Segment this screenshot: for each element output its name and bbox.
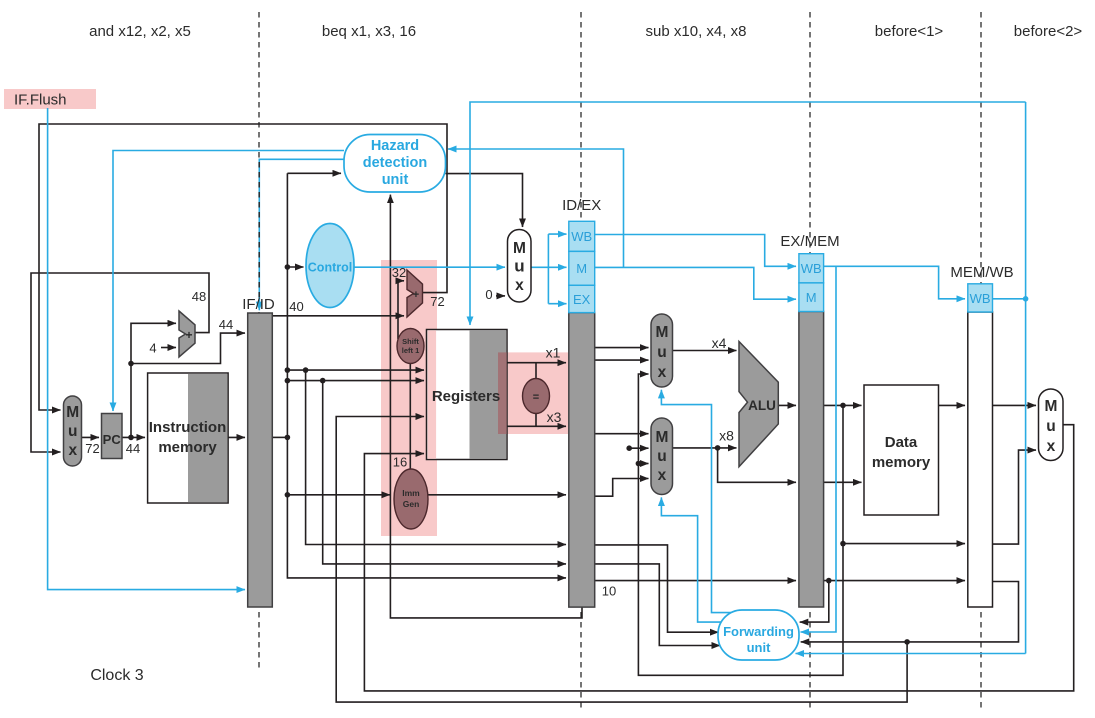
svg-text:u: u [657,448,666,465]
wire rs1 number down to ID/EX [306,370,566,544]
svg-text:Registers: Registers [432,388,500,405]
wire mux B to ALU x8 [673,447,737,449]
blue wire bracket vertical [547,234,549,304]
Data memory [864,385,939,515]
shift left 1 [397,329,424,364]
blue wire EX/MEM WB to MEM/WB WB [824,266,965,299]
wire EX/MEM rd down to forwarding unit [800,581,829,623]
svg-text:44: 44 [219,317,233,332]
svg-text:WB: WB [970,291,991,306]
wire MEM/WB ALU result to WB mux [993,450,1037,544]
wire instruction bus vertical [287,173,566,578]
junction dot ALU operand B store data [715,445,721,451]
ID/EX M box [569,251,595,285]
svg-text:u: u [68,423,77,440]
wire Data memory read data to MEM/WB [939,404,966,406]
svg-text:+: + [185,328,192,342]
Instruction memory [148,373,229,503]
junction dot ALU result [840,403,846,409]
svg-text:Data: Data [885,434,918,451]
junction dot blue MEM/WB WB [1023,296,1029,302]
svg-text:EX/MEM: EX/MEM [780,233,839,250]
pink highlight band ID stage [381,260,437,536]
svg-text:IF/ID: IF/ID [242,296,275,313]
wire PC to Instruction memory [122,436,145,438]
junction dot MEM/WB rd loop [904,639,910,645]
svg-text:memory: memory [872,454,931,471]
svg-text:M: M [576,261,587,276]
svg-text:4: 4 [149,341,156,356]
svg-text:u: u [1046,418,1055,435]
wire ID/EX to forward mux A input 1 [595,347,649,349]
clock boundary dashed line 2 [580,12,582,710]
adder PC plus 4 [179,311,195,357]
wire ID/EX to forward mux B input 1 [595,433,649,435]
write back mux [1039,389,1064,461]
junction dot forward line mux B input 3 [636,461,642,467]
wire MEM/WB read data to WB mux [993,404,1037,406]
wire EX/MEM rd to MEM/WB [824,580,965,582]
junction dot PC output [128,435,134,441]
svg-text:u: u [514,257,524,276]
EX/MEM WB box [799,254,824,283]
pipeline register MEM/WB white bar [968,312,993,607]
blue wire MEM/WB WB output stub [993,298,1026,300]
blue wire IF.Flush to IF/ID [48,108,245,590]
svg-text:EX: EX [573,292,591,307]
blue wire ForwardB from forwarding unit to mux B [661,497,723,622]
wire PC+4 48 loop to PC mux [31,273,209,452]
wire PC value 44 into IF/ID [131,333,245,363]
blue wire MEM/WB RegWrite vertical [1025,102,1027,654]
svg-text:Forwarding: Forwarding [723,624,794,639]
wire immediate step into forward mux B input 4 [595,479,649,497]
wire write register number loop from MEM/WB [336,417,907,703]
svg-text:16: 16 [393,455,407,470]
svg-text:x4: x4 [712,335,727,351]
wire IF/ID PC 40 to branch adder [272,315,404,317]
wire instruction to Imm Gen [287,494,390,496]
junction dot instruction immgen [285,492,291,498]
wire equality comparator taps [535,363,537,427]
svg-text:u: u [657,344,666,361]
svg-text:M: M [513,240,525,257]
svg-text:WB: WB [801,261,822,276]
MEM/WB WB box [968,284,993,312]
wire instruction to hazard detection unit [287,172,341,174]
Control unit [306,224,354,308]
clock boundary dashed line 1 [258,12,260,672]
svg-text:x: x [68,442,77,459]
forward mux B [651,418,673,495]
wire read register 1 [287,369,424,371]
wire instruction to Control [287,266,303,268]
wire ID/EX to forward mux A input 2 [595,359,649,361]
wire instruction stub out of IF/ID [272,436,287,438]
svg-text:Gen: Gen [403,499,420,509]
svg-text:M: M [655,324,667,341]
EX/MEM M box [799,283,824,312]
Imm Gen [394,469,428,529]
svg-text:PC: PC [103,432,122,447]
wire rd 10 to EX/MEM [595,580,796,582]
mux PC select [64,396,82,466]
junction dot instruction rs2 [285,378,291,384]
wire ALU result to MEM/WB [843,543,965,545]
wire hazard unit to control zero mux [446,174,523,227]
junction dot rs2 down [320,378,326,384]
svg-text:40: 40 [289,299,303,314]
svg-text:WB: WB [571,229,592,244]
wire rs2 number down to ID/EX [323,381,566,564]
svg-text:Instruction: Instruction [149,419,227,436]
branch adder [407,270,423,317]
wire read data 2 x3 to ID/EX [507,425,566,427]
forwarding unit [718,610,799,660]
blue wire bracket to ID/EX EX [548,303,566,305]
svg-text:before<2>: before<2> [1014,23,1083,40]
wire PC mux to PC [82,436,100,438]
wire EX/MEM store data to Data memory [824,481,862,483]
svg-text:+: + [413,289,419,301]
junction dot ALU result to MEM/WB [840,541,846,547]
svg-text:x3: x3 [547,409,562,425]
junction dot instruction rs1 [285,367,291,373]
svg-text:72: 72 [430,294,444,309]
blue wire PCWrite from hazard unit to PC [113,151,344,412]
wire ALU result to EX/MEM [778,404,796,406]
wire ID/EX rd to hazard detection unit [390,195,582,618]
svg-text:unit: unit [382,172,409,188]
junction dot rs1 down [303,367,309,373]
ID/EX EX box [569,285,595,312]
junction dot instruction stub [285,435,291,441]
svg-text:M: M [1044,398,1056,415]
wire Instruction memory to IF/ID [228,436,245,438]
Registers [427,330,508,460]
svg-text:x: x [658,467,667,484]
blue wire ID/EX WB to EX/MEM WB [595,235,796,267]
svg-text:ALU: ALU [748,398,776,413]
svg-text:M: M [66,404,78,421]
svg-text:44: 44 [126,441,140,456]
wire stub into forward mux B input 2 [629,447,648,449]
svg-text:10: 10 [602,584,616,599]
svg-text:0: 0 [485,287,492,302]
blue wire EX/MEM RegWrite down to forwarding unit [801,266,837,632]
svg-text:left 1: left 1 [402,346,420,355]
svg-text:x: x [658,364,667,381]
pink highlight equality comparator [498,352,568,434]
wire shift left 1 to branch adder 32 [398,281,404,339]
blue wire IF/ID write from hazard unit [259,159,344,310]
svg-text:memory: memory [158,439,217,456]
blue wire ForwardA from forwarding unit to mux A [661,390,734,613]
svg-text:IF.Flush: IF.Flush [14,92,67,109]
blue wire bracket to ID/EX WB [548,233,566,235]
svg-text:before<1>: before<1> [875,23,944,40]
svg-text:72: 72 [85,441,99,456]
wire zero constant into control mux [496,295,505,297]
wire branch target 72 loop to PC mux [39,124,447,410]
wire MEM/WB rd loop to forwarding unit [801,582,1019,642]
svg-text:=: = [533,392,539,404]
svg-text:x1: x1 [546,345,561,361]
hazard detection unit [344,135,446,193]
pipeline register IF/ID [248,313,273,607]
junction dot EX/MEM rd [826,578,832,584]
svg-text:detection: detection [363,155,427,171]
wire EX/MEM ALU result forwarding loop to mux A input 3 [638,374,843,675]
pipeline register ID/EX gray bar [569,313,595,607]
control zero mux [508,230,532,303]
wire PC up to adder input 1 [131,323,176,437]
equality comparator [523,379,550,414]
clock boundary dashed line 4 [980,12,982,710]
svg-text:ID/EX: ID/EX [562,197,601,214]
svg-text:Shift: Shift [402,337,419,346]
blue wire zero mux to ID/EX M [531,266,567,268]
wire Imm Gen to shift left 1 [409,363,411,469]
wire forwarding branch to mux B input 3 [638,463,648,465]
svg-text:48: 48 [192,289,206,304]
blue wire ID/EX M to EX/MEM M [595,267,796,299]
svg-text:Clock 3: Clock 3 [90,667,143,684]
blue wire top RegWrite to Registers [470,102,1026,325]
dashed overlay on IF/ID write wire [258,162,260,302]
blue wire RegWrite to forwarding unit [796,653,1026,655]
wire EX/MEM ALU result to Data memory address [824,404,862,406]
ALU [739,342,778,467]
forward mux A [651,314,673,387]
wire mux A to ALU x4 [673,350,737,352]
svg-text:sub x10, x4, x8: sub x10, x4, x8 [646,23,747,40]
svg-text:Hazard: Hazard [371,138,419,154]
svg-text:x: x [1047,438,1056,455]
svg-text:M: M [806,290,817,305]
wire rs2 to forwarding unit [595,564,720,646]
svg-text:Imm: Imm [402,488,420,498]
junction dot instruction to control [285,264,291,270]
svg-text:beq x1, x3, 16: beq x1, x3, 16 [322,23,416,40]
wire read register 2 [287,380,424,382]
junction dot mux B input 2 stub [626,445,632,451]
wire Imm Gen output to ID/EX [428,494,566,496]
wire write data loop from WB mux [364,425,1073,691]
blue wire ID/EX M feedback to hazard unit [448,149,624,267]
pipeline register EX/MEM gray bar [799,312,824,608]
svg-text:x8: x8 [719,428,734,444]
svg-text:MEM/WB: MEM/WB [950,264,1013,281]
svg-text:and x12, x2, x5: and x12, x2, x5 [89,23,191,40]
wire rs1 to forwarding unit [595,545,719,632]
svg-text:Control: Control [308,261,352,275]
blue wire Control output to zero mux [353,266,506,268]
junction dot PC branch to IF/ID [128,361,134,367]
ID/EX WB box [569,221,595,251]
svg-text:unit: unit [747,640,771,655]
pink highlight IF.Flush [4,89,96,109]
wire store data down into EX/MEM [718,448,796,482]
svg-text:32: 32 [392,265,406,280]
clock boundary dashed line 3 [809,12,811,710]
wire ALU result down [842,405,844,543]
PC register [102,414,123,459]
svg-text:x: x [515,277,524,294]
wire constant 4 into adder [161,347,176,349]
svg-text:M: M [655,429,667,446]
wire read data 1 x1 to ID/EX [507,362,566,364]
